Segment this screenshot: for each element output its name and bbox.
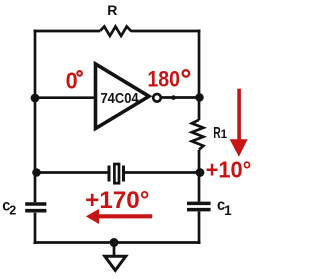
svg-text:+10°: +10° <box>206 156 252 183</box>
svg-text:+170°: +170° <box>85 187 149 214</box>
svg-text:74C04: 74C04 <box>101 89 139 106</box>
svg-text:0: 0 <box>66 68 78 94</box>
svg-text:1: 1 <box>224 203 232 218</box>
svg-text:180: 180 <box>147 67 180 92</box>
svg-text:1: 1 <box>221 128 228 141</box>
svg-text:R: R <box>107 2 117 18</box>
svg-text:2: 2 <box>9 204 16 218</box>
